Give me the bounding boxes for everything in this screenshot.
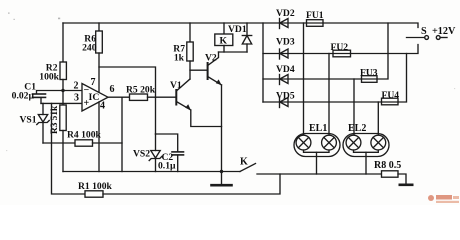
wire R6 node to base node bbox=[99, 67, 156, 97]
wire tap EL1 right filament bbox=[328, 54, 330, 136]
svg-text:2: 2 bbox=[74, 81, 79, 92]
resistor R8 bbox=[382, 171, 399, 177]
transistor V2 bbox=[208, 52, 222, 85]
transistor V1 bbox=[176, 79, 191, 110]
wire R2 bottom to node A bbox=[62, 80, 64, 91]
svg-text:0.02µ: 0.02µ bbox=[12, 91, 35, 102]
diode VD2 bbox=[280, 19, 289, 29]
wire pin2 input bbox=[63, 90, 82, 92]
wire R1 to K contact node bbox=[103, 174, 280, 194]
lamp EL1 bbox=[294, 134, 340, 175]
fuse FU2 bbox=[333, 50, 351, 57]
svg-text:VD5: VD5 bbox=[276, 91, 295, 102]
svg-text:VD2: VD2 bbox=[276, 8, 295, 19]
svg-text:FU4: FU4 bbox=[382, 90, 400, 101]
svg-text:K: K bbox=[220, 36, 228, 47]
wire V2 emitter to ground dot bbox=[221, 85, 223, 172]
wire top rail +12V feed bbox=[63, 23, 418, 28]
svg-text:EL2: EL2 bbox=[348, 123, 366, 134]
svg-text:R5 20k: R5 20k bbox=[126, 85, 156, 96]
relay coil K bbox=[215, 23, 233, 52]
scan noise specks bbox=[6, 13, 455, 152]
wire V1 emitter to ground column bbox=[191, 110, 222, 127]
wire tap EL2 right filament bbox=[377, 102, 379, 135]
wire pin6 dropper bbox=[121, 97, 123, 171]
wire V2 collector to K bottom bbox=[219, 51, 248, 53]
svg-text:0.1µ: 0.1µ bbox=[158, 161, 176, 172]
svg-text:−: − bbox=[84, 85, 90, 96]
op-amp IC triangle bbox=[82, 84, 108, 112]
wire rail2 (FU2 row to switch) bbox=[263, 45, 418, 54]
svg-text:R8 0.5: R8 0.5 bbox=[374, 160, 401, 171]
svg-text:100k: 100k bbox=[39, 72, 59, 83]
zener diode VS2 bbox=[149, 97, 162, 171]
svg-text:VD4: VD4 bbox=[276, 64, 295, 75]
svg-text:3: 3 bbox=[74, 93, 79, 104]
node A junction dot bbox=[61, 89, 64, 92]
svg-text:V1: V1 bbox=[170, 80, 182, 91]
resistor R7 bbox=[187, 23, 193, 79]
resistor R2 bbox=[60, 62, 66, 80]
wire tap EL1 left filament bbox=[303, 23, 305, 135]
svg-text:VS2: VS2 bbox=[133, 149, 150, 160]
relay contact K bbox=[240, 164, 256, 172]
node R2 top bbox=[62, 23, 64, 62]
svg-text:+: + bbox=[84, 98, 90, 109]
svg-text:VD1: VD1 bbox=[228, 24, 247, 35]
wire tap EL2 left filament bbox=[353, 79, 355, 135]
wire pin4 to ground rail bbox=[98, 102, 100, 172]
diode VD1 bbox=[242, 23, 251, 52]
resistor R3 bbox=[60, 91, 66, 172]
wire pin3 input bbox=[41, 102, 82, 104]
svg-text:R4 100k: R4 100k bbox=[67, 130, 102, 141]
wire ground rail left bbox=[63, 171, 240, 173]
wire lamp common line bbox=[257, 173, 382, 175]
zener diode VS1 bbox=[37, 103, 49, 143]
resistor R6 bbox=[96, 23, 103, 92]
wire R1 feedback rail bbox=[52, 103, 86, 194]
wire row3 (FU3 row) bbox=[263, 23, 388, 79]
wire row4 (FU4 row) bbox=[263, 54, 407, 103]
switch S bbox=[407, 36, 448, 40]
svg-text:7: 7 bbox=[91, 77, 96, 88]
diode VD5 bbox=[280, 98, 289, 108]
fuse FU1 bbox=[307, 20, 324, 27]
watermark logo bbox=[428, 195, 459, 203]
capacitor C2 bbox=[156, 134, 184, 172]
svg-text:IC: IC bbox=[89, 92, 100, 103]
svg-text:4: 4 bbox=[100, 101, 105, 112]
svg-text:FU1: FU1 bbox=[306, 10, 324, 21]
svg-text:VS1: VS1 bbox=[19, 115, 36, 126]
resistor R4 bbox=[43, 140, 122, 146]
svg-text:FU2: FU2 bbox=[331, 42, 349, 53]
svg-text:+12V: +12V bbox=[432, 26, 456, 37]
node ground junction dot bbox=[220, 170, 223, 173]
wire R5 to V1 base bbox=[148, 96, 177, 98]
capacitor C1 bbox=[33, 91, 64, 104]
resistor R5 bbox=[130, 94, 148, 100]
wire V1 collector node to V2 base bbox=[190, 69, 208, 71]
fuse FU4 bbox=[382, 98, 399, 105]
svg-text:V2: V2 bbox=[205, 53, 217, 64]
ground symbol right bbox=[400, 184, 412, 187]
svg-text:240: 240 bbox=[82, 43, 97, 54]
svg-text:VD3: VD3 bbox=[276, 37, 295, 48]
svg-text:R1 100k: R1 100k bbox=[78, 181, 113, 192]
svg-text:1k: 1k bbox=[174, 53, 185, 64]
svg-text:S: S bbox=[421, 26, 427, 37]
svg-text:6: 6 bbox=[110, 84, 115, 95]
wire R8 to ground right bbox=[398, 174, 406, 184]
wire pin6 output bbox=[108, 96, 130, 98]
resistor R1 bbox=[85, 191, 103, 197]
fuse FU3 bbox=[362, 76, 378, 83]
ground symbol left bbox=[212, 172, 232, 186]
lamp EL2 bbox=[343, 134, 389, 175]
wire diode ladder common vertical bbox=[262, 23, 264, 102]
svg-text:K: K bbox=[240, 157, 248, 168]
svg-text:EL1: EL1 bbox=[309, 123, 327, 134]
diode VD4 bbox=[280, 75, 289, 85]
svg-text:FU3: FU3 bbox=[360, 68, 378, 79]
diode VD3 bbox=[280, 49, 289, 59]
